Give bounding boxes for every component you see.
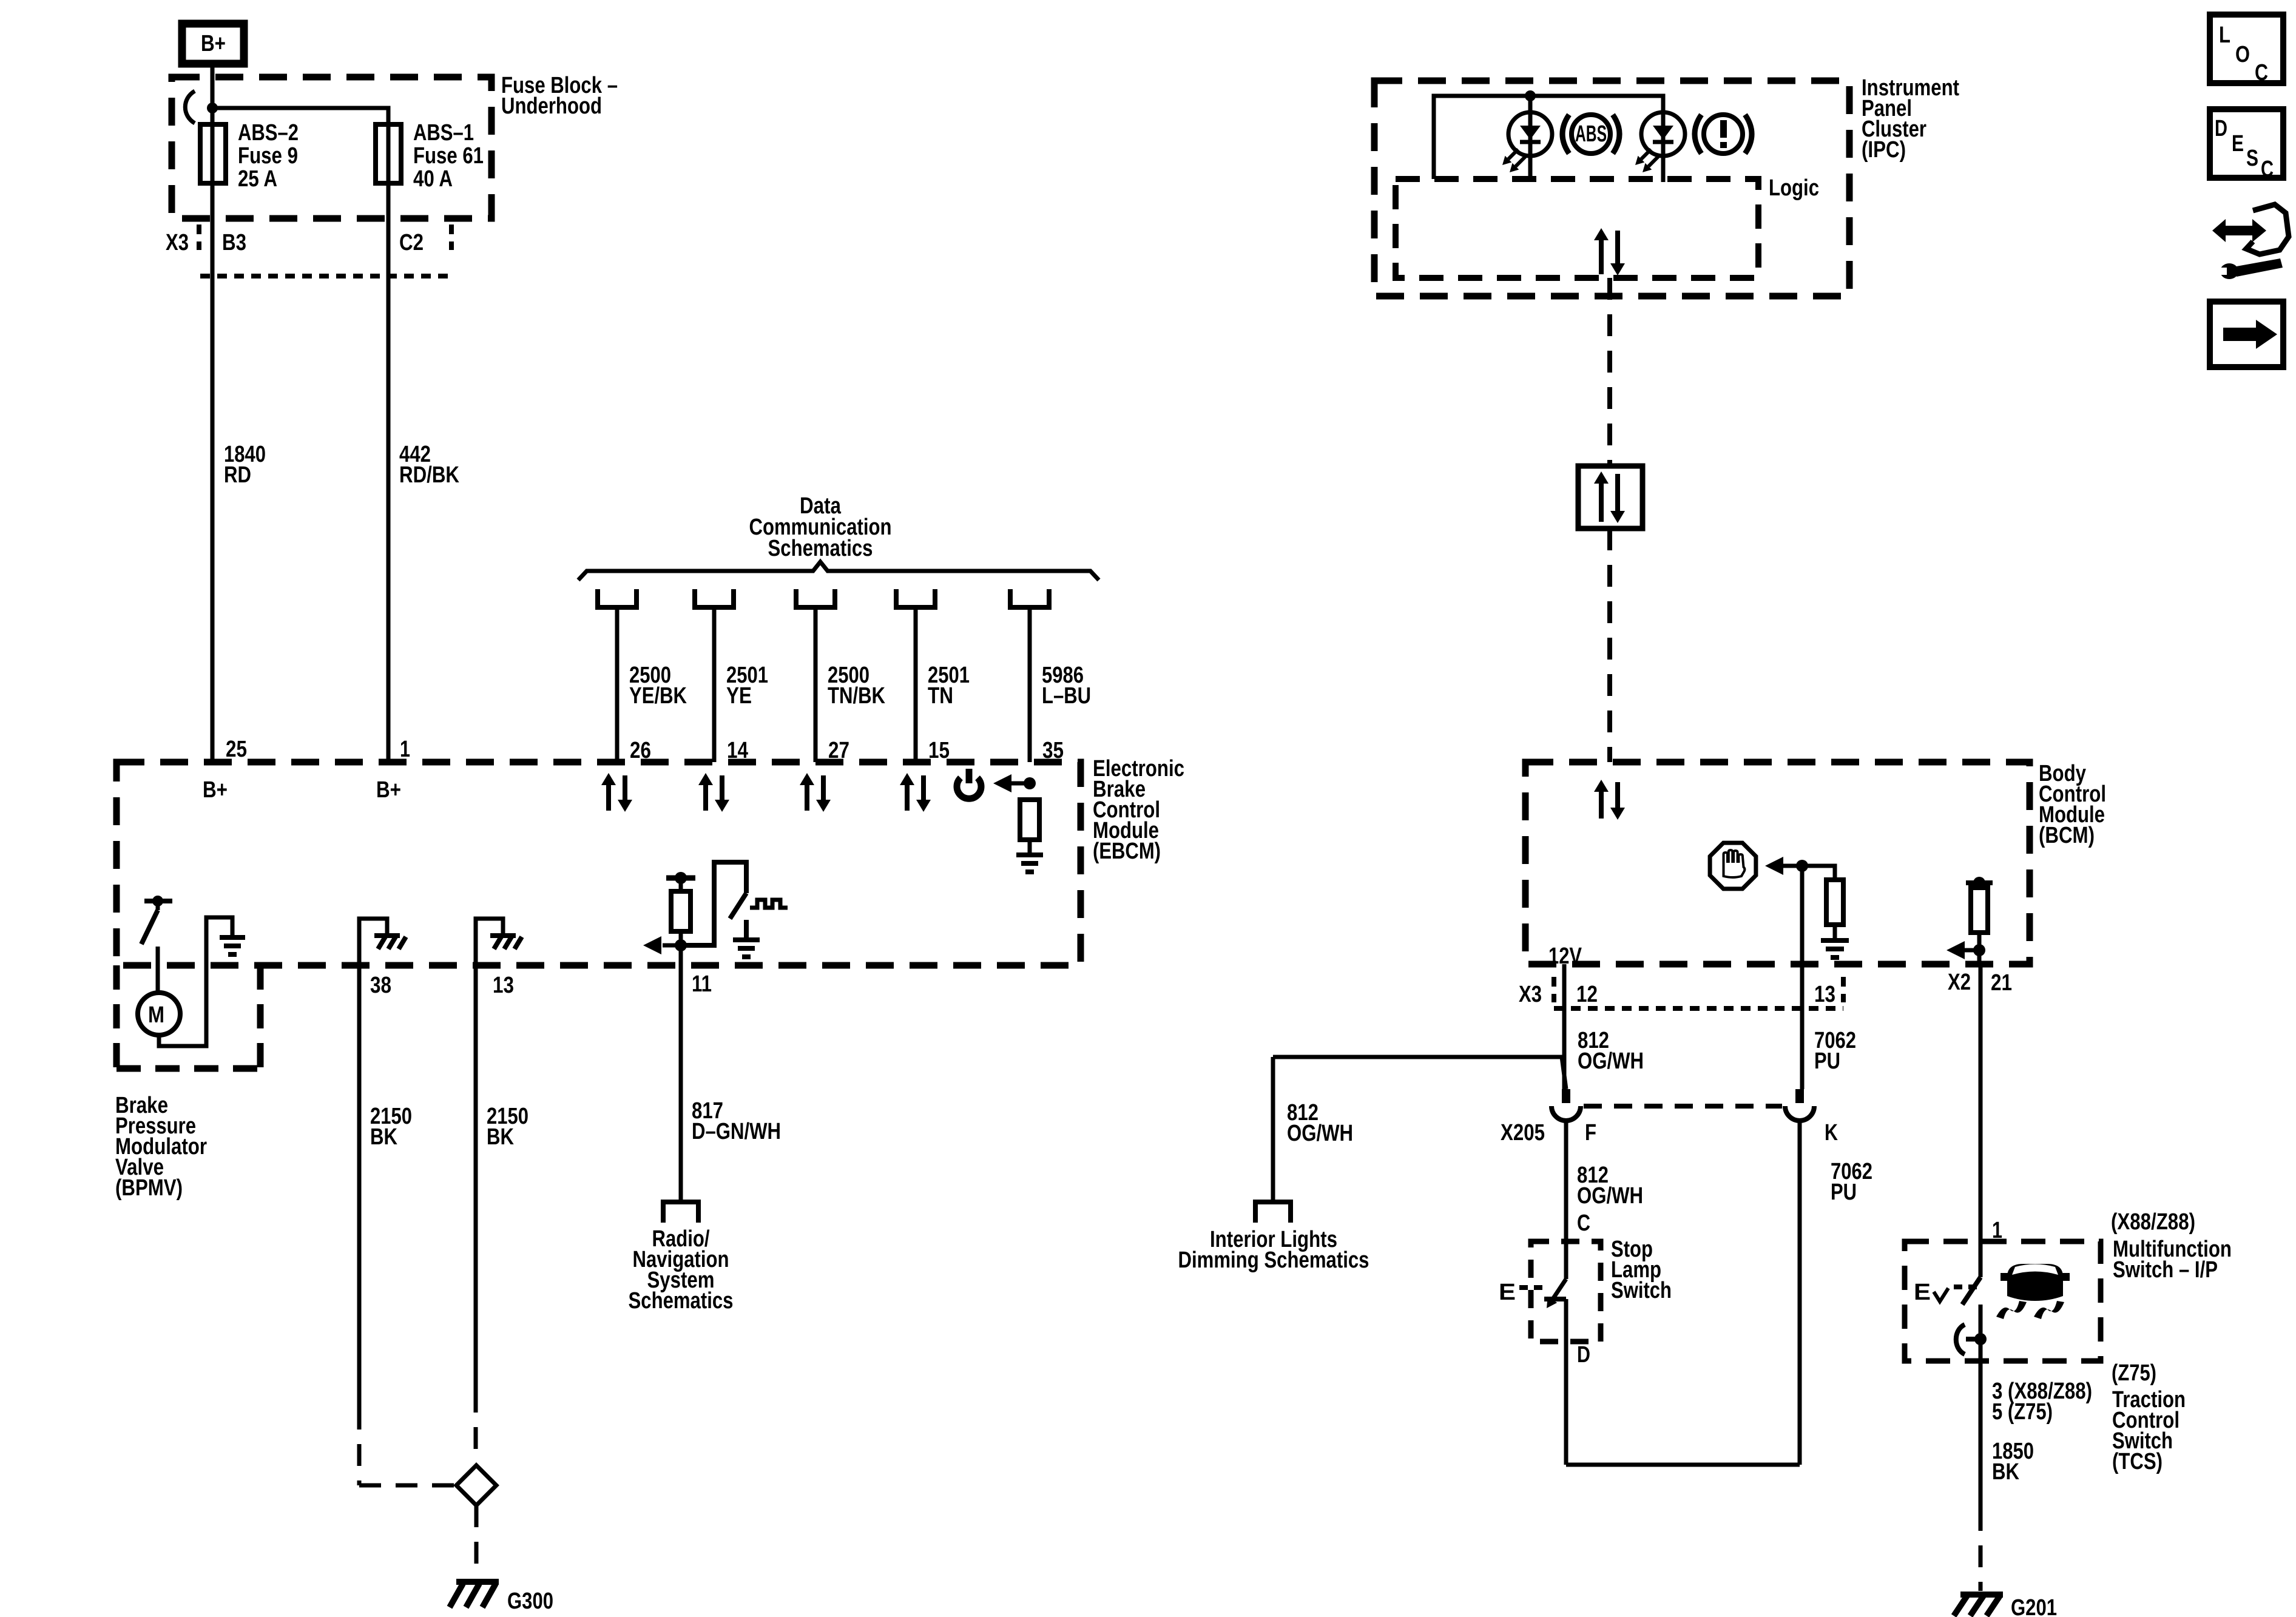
svg-text:40 A: 40 A [413,166,453,192]
svg-text:25 A: 25 A [238,166,277,192]
svg-text:B+: B+ [203,777,228,803]
svg-text:X2: X2 [1948,970,1971,995]
svg-text:C: C [1577,1210,1590,1236]
svg-text:14: 14 [727,738,748,763]
svg-text:ABS–2: ABS–2 [238,120,299,146]
svg-text:RD: RD [224,462,251,488]
svg-text:E: E [1499,1280,1516,1305]
svg-text:YE/BK: YE/BK [629,683,687,709]
svg-text:(Z75): (Z75) [2112,1360,2156,1386]
svg-text:B+: B+ [376,777,401,803]
svg-text:11: 11 [692,971,712,997]
svg-text:X3: X3 [166,230,189,255]
svg-text:26: 26 [630,738,651,763]
svg-text:21: 21 [1991,970,2012,996]
svg-text:13: 13 [493,973,514,998]
svg-text:E: E [1914,1280,1931,1305]
svg-text:27: 27 [828,738,849,763]
svg-text:X205: X205 [1501,1120,1545,1146]
svg-text:OG/WH: OG/WH [1287,1121,1353,1146]
svg-text:X3: X3 [1519,982,1542,1007]
svg-text:Logic: Logic [1769,175,1819,201]
svg-text:D: D [1577,1342,1590,1368]
svg-text:F: F [1585,1120,1596,1146]
svg-text:D: D [2215,116,2227,141]
svg-text:Dimming Schematics: Dimming Schematics [1178,1247,1369,1273]
svg-text:(TCS): (TCS) [2112,1449,2163,1474]
svg-text:(IPC): (IPC) [1862,137,1906,163]
svg-text:PU: PU [1831,1180,1857,1205]
svg-text:TN/BK: TN/BK [828,683,885,709]
svg-text:BK: BK [487,1124,514,1150]
svg-text:O: O [2235,42,2250,67]
svg-text:OG/WH: OG/WH [1577,1183,1643,1209]
svg-text:Schematics: Schematics [629,1288,734,1314]
svg-text:BK: BK [1992,1459,2019,1485]
svg-text:Switch: Switch [1611,1278,1672,1303]
svg-text:(BPMV): (BPMV) [115,1175,183,1201]
svg-text:25: 25 [226,737,247,762]
svg-text:38: 38 [370,973,391,998]
svg-text:35: 35 [1042,738,1064,763]
svg-text:TN: TN [928,683,953,709]
svg-text:M: M [148,1002,164,1028]
svg-text:G300: G300 [507,1588,553,1614]
svg-text:BK: BK [370,1124,397,1150]
svg-text:ABS: ABS [1575,121,1607,147]
svg-text:C: C [2255,60,2268,86]
svg-text:RD/BK: RD/BK [399,462,459,488]
svg-text:1: 1 [400,737,410,762]
svg-text:5 (Z75): 5 (Z75) [1992,1399,2053,1425]
svg-text:Schematics: Schematics [768,536,873,561]
svg-text:L–BU: L–BU [1042,683,1091,709]
svg-text:D–GN/WH: D–GN/WH [692,1119,781,1144]
svg-text:15: 15 [928,738,950,763]
svg-text:Fuse 61: Fuse 61 [413,143,484,169]
svg-text:G201: G201 [2011,1595,2057,1617]
svg-text:L: L [2219,22,2230,48]
svg-text:13: 13 [1814,982,1835,1007]
svg-text:C: C [2261,157,2274,182]
svg-text:Switch – I/P: Switch – I/P [2113,1257,2218,1283]
svg-text:C2: C2 [399,230,424,255]
svg-text:(EBCM): (EBCM) [1093,839,1161,864]
svg-text:YE: YE [726,683,752,709]
svg-text:(X88/Z88): (X88/Z88) [2111,1209,2195,1235]
svg-text:S: S [2246,146,2258,171]
svg-text:PU: PU [1814,1048,1840,1074]
svg-text:K: K [1825,1120,1838,1146]
svg-text:B3: B3 [222,230,246,255]
svg-text:Underhood: Underhood [501,93,602,119]
svg-text:B+: B+ [201,31,226,56]
svg-text:OG/WH: OG/WH [1578,1048,1644,1074]
svg-text:(BCM): (BCM) [2039,823,2095,848]
svg-text:E: E [2232,131,2244,157]
svg-text:Fuse 9: Fuse 9 [238,143,298,169]
svg-text:ABS–1: ABS–1 [413,120,474,146]
svg-text:12: 12 [1576,982,1598,1007]
